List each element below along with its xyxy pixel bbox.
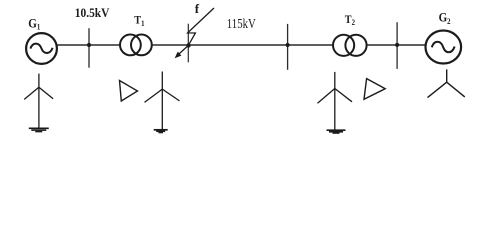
node junction on right busbar bbox=[395, 43, 399, 47]
label G1 bbox=[28, 15, 40, 31]
generator G1 bbox=[26, 33, 57, 64]
delta winding symbol (T1 primary) bbox=[120, 81, 138, 102]
bus 10.5kV (left busbar) bbox=[88, 28, 90, 67]
ground under G1 wye bbox=[29, 128, 49, 131]
bus right busbar bbox=[396, 22, 398, 69]
bus middle busbar bbox=[287, 24, 289, 70]
wye grounded winding symbol under T2 bbox=[318, 72, 353, 130]
wye winding symbol under G2 bbox=[428, 69, 465, 97]
svg-text:10.5kV: 10.5kV bbox=[75, 5, 110, 20]
label T1 bbox=[134, 14, 144, 28]
label 115kV bbox=[227, 16, 256, 31]
generator G2 bbox=[426, 31, 462, 64]
bus fault busbar bbox=[187, 24, 189, 63]
transformer T1 bbox=[120, 35, 152, 56]
delta winding symbol (T2 secondary) bbox=[364, 79, 385, 100]
wye grounded winding symbol under G1 bbox=[24, 74, 53, 129]
ground under T1 wye bbox=[154, 130, 168, 133]
label 10.5kV bbox=[75, 5, 110, 20]
node junction on middle busbar bbox=[286, 43, 290, 47]
fault bolt f bbox=[175, 8, 214, 58]
svg-text:f: f bbox=[195, 1, 200, 16]
wire main 115kV line G1 to G2 bbox=[56, 44, 426, 46]
ground under T2 wye bbox=[327, 130, 346, 133]
svg-text:115kV: 115kV bbox=[227, 16, 256, 31]
label G2 bbox=[439, 10, 451, 26]
wye grounded winding symbol under T1 bbox=[145, 72, 180, 130]
label T2 bbox=[345, 13, 355, 27]
node junction on 10.5kV bus bbox=[87, 43, 91, 47]
transformer T2 bbox=[333, 35, 367, 56]
